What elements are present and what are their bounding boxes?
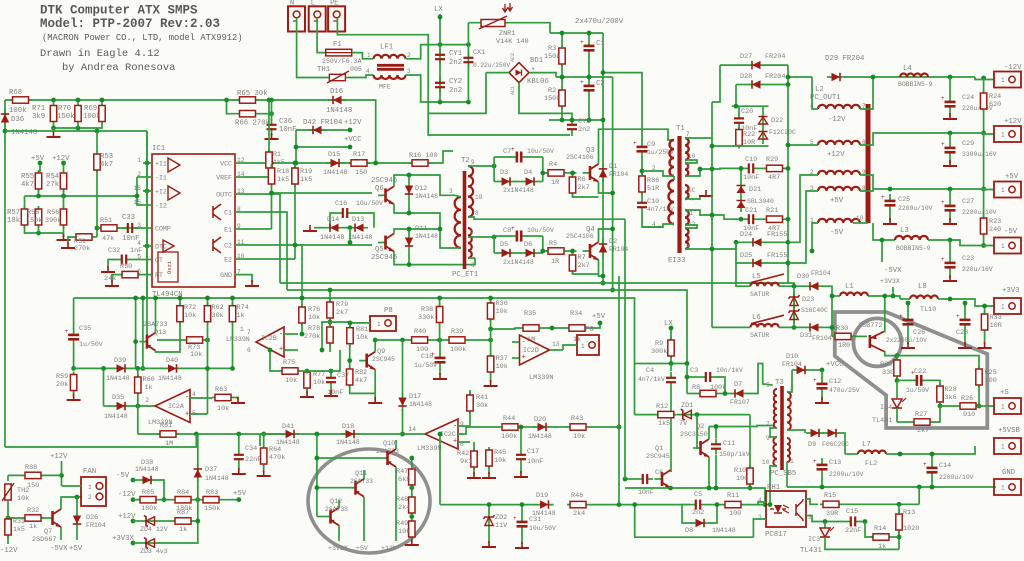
junction	[3, 129, 8, 134]
junction	[830, 325, 835, 330]
svg-text:+3V3X: +3V3X	[328, 545, 348, 552]
resistor R17	[348, 160, 370, 166]
wire	[766, 262, 788, 264]
svg-text:C4: C4	[646, 367, 654, 375]
svg-text:C34: C34	[245, 445, 257, 453]
wire	[832, 295, 840, 297]
resistor R9	[668, 337, 674, 359]
optocoupler PH1 PC817 box	[766, 491, 806, 527]
svg-text:10k: 10k	[494, 457, 506, 465]
junction	[438, 42, 443, 47]
svg-text:R78: R78	[308, 325, 320, 333]
svg-text:R27: R27	[915, 411, 927, 419]
wire	[744, 504, 770, 506]
junction	[294, 145, 299, 150]
svg-text:C16: C16	[335, 200, 347, 208]
svg-text:1N4148: 1N4148	[135, 466, 159, 473]
wire IC1 pin 7	[235, 274, 244, 276]
transistor Q10	[380, 449, 396, 467]
resistor R50	[119, 271, 141, 277]
ground	[67, 394, 81, 400]
svg-text:R71: R71	[32, 105, 46, 113]
svg-text:100k: 100k	[501, 433, 517, 441]
svg-text:1N4148: 1N4148	[415, 233, 438, 240]
resistor R3	[559, 45, 565, 67]
svg-text:R16 100: R16 100	[409, 152, 438, 160]
capacitor C23	[941, 256, 956, 274]
svg-text:R7: R7	[578, 254, 586, 262]
junction	[135, 194, 140, 199]
ground	[47, 131, 61, 137]
svg-text:L4: L4	[903, 65, 912, 73]
wire	[314, 227, 325, 229]
wire	[408, 199, 410, 213]
svg-text:10nF: 10nF	[743, 174, 759, 182]
L2 winding -5V	[818, 219, 860, 223]
wire	[330, 321, 350, 324]
resistor R83	[200, 497, 222, 503]
svg-text:R48: R48	[396, 496, 408, 504]
svg-text:+: +	[941, 256, 945, 263]
svg-text:PH1: PH1	[767, 484, 781, 492]
wire to Q5 base	[349, 228, 351, 243]
svg-text:11V: 11V	[495, 522, 508, 530]
resistor R11	[722, 501, 744, 507]
junction	[51, 126, 56, 131]
wire	[488, 505, 490, 512]
wire IC1 pin 15	[143, 204, 152, 206]
diode D16	[328, 96, 346, 104]
wire	[490, 373, 492, 382]
wire to bridge left	[486, 72, 509, 74]
svg-text:10nF: 10nF	[527, 458, 543, 466]
transistor Q7	[45, 509, 61, 527]
wire D7 to T3 pin5	[748, 364, 773, 394]
wire to R10	[749, 415, 751, 467]
svg-text:CY3: CY3	[578, 118, 590, 126]
svg-text:CX1: CX1	[473, 49, 485, 57]
svg-text:2200u/10V: 2200u/10V	[898, 205, 933, 212]
junction	[617, 502, 622, 507]
resistor R19	[292, 165, 298, 187]
svg-text:-5VX: -5VX	[884, 267, 902, 275]
svg-text:+I2: +I2	[155, 189, 167, 196]
junction	[871, 75, 876, 80]
junction	[792, 325, 797, 330]
wire IC2B in1	[284, 333, 298, 335]
wire	[561, 65, 563, 88]
wire	[949, 159, 951, 163]
svg-text:470u/25V: 470u/25V	[829, 387, 860, 394]
svg-text:D25: D25	[740, 252, 752, 260]
wire y131	[5, 130, 147, 132]
resistor R64	[261, 445, 267, 467]
wire Q6 emitter to T2 bottom	[394, 204, 455, 248]
svg-text:R77: R77	[313, 371, 325, 379]
svg-text:1k5: 1k5	[300, 176, 312, 184]
wire to L2 pin5	[788, 144, 818, 146]
wire	[439, 369, 441, 375]
wire	[181, 367, 233, 369]
wire	[821, 395, 823, 400]
wire x317 vertical	[316, 434, 318, 517]
svg-text:-12V: -12V	[0, 547, 18, 555]
wire	[978, 386, 980, 406]
svg-text:10: 10	[237, 253, 245, 260]
junction	[205, 296, 210, 301]
svg-text:22nF: 22nF	[245, 456, 261, 464]
wire x983 trunk a	[983, 78, 985, 92]
resistor R68	[10, 97, 32, 103]
diode D38	[138, 476, 156, 484]
wire Q8 collector down	[884, 352, 897, 356]
svg-text:2n2: 2n2	[449, 87, 462, 95]
wire T3 left link	[770, 428, 777, 437]
svg-text:2SC4106: 2SC4106	[566, 154, 594, 161]
svg-text:R9: R9	[655, 340, 663, 348]
junction	[348, 240, 353, 245]
wire snubber top	[603, 73, 642, 141]
wire L2 pin6	[860, 133, 900, 145]
svg-text:4R7: 4R7	[768, 174, 780, 182]
svg-text:C2: C2	[224, 243, 232, 250]
svg-text:12: 12	[237, 157, 245, 164]
junction	[830, 294, 835, 299]
svg-text:+5V: +5V	[69, 545, 83, 553]
resistor R74	[229, 303, 235, 325]
junction	[71, 366, 76, 371]
svg-text:BD1: BD1	[530, 57, 544, 65]
wire top rail	[5, 100, 376, 163]
junction	[786, 217, 791, 222]
resistor R61	[157, 431, 179, 437]
svg-text:+: +	[511, 225, 515, 232]
capacitor C28	[956, 313, 971, 331]
wire E1 ext	[244, 228, 272, 230]
wire	[330, 388, 332, 393]
svg-text:1k: 1k	[29, 523, 37, 531]
junction	[715, 502, 720, 507]
wire	[76, 529, 78, 540]
varistor ZNR1	[479, 3, 513, 29]
svg-text:C29: C29	[962, 140, 974, 148]
junction	[610, 191, 615, 196]
svg-text:10k: 10k	[496, 308, 508, 316]
diode D15	[326, 159, 344, 167]
svg-text:1k: 1k	[237, 312, 245, 320]
junction	[100, 98, 105, 103]
svg-text:8: 8	[475, 210, 479, 217]
wire IC2C out	[458, 427, 466, 434]
resistor R42	[471, 448, 477, 470]
transformer T3 left winding b	[773, 437, 777, 466]
svg-text:+12V: +12V	[52, 155, 70, 163]
svg-text:+: +	[899, 313, 903, 320]
svg-text:11: 11	[686, 210, 694, 217]
svg-text:R26: R26	[961, 395, 973, 403]
junction	[519, 425, 524, 430]
junction	[329, 369, 334, 374]
svg-text:2n2: 2n2	[692, 509, 704, 517]
capacitor C22	[910, 369, 928, 386]
svg-text:9k1: 9k1	[460, 458, 472, 466]
resistor R12a	[266, 149, 272, 171]
svg-text:R19: R19	[300, 168, 312, 176]
junction	[540, 171, 545, 176]
wire	[897, 379, 910, 381]
wire VCC row	[244, 151, 453, 163]
svg-text:R63: R63	[215, 386, 227, 394]
wire	[263, 465, 265, 472]
wire to P8	[350, 322, 370, 324]
wire bridge plus out	[529, 73, 556, 77]
svg-text:D36: D36	[11, 116, 24, 124]
capacitor C27	[941, 199, 956, 217]
wire IC1 pin 16	[143, 190, 152, 192]
wire PE earth line	[337, 18, 570, 135]
svg-text:2: 2	[88, 494, 92, 501]
junction	[153, 296, 158, 301]
svg-text:IC3: IC3	[808, 536, 820, 544]
junction	[488, 327, 493, 332]
svg-text:1: 1	[1001, 187, 1005, 194]
svg-text:+5V: +5V	[31, 155, 45, 163]
wire Q4 emitter	[599, 260, 604, 276]
junction	[948, 131, 953, 136]
svg-text:30k: 30k	[476, 402, 488, 410]
svg-text:R65 30k: R65 30k	[237, 90, 268, 98]
wire Q9 emitter	[374, 370, 376, 394]
wire mid rail	[25, 195, 138, 197]
svg-text:FAN: FAN	[83, 468, 96, 476]
diode D31	[805, 323, 823, 331]
svg-text:11: 11	[237, 239, 245, 246]
junction	[601, 274, 606, 279]
wire	[892, 536, 899, 538]
resistor R54	[60, 170, 66, 192]
junction	[786, 143, 791, 148]
wire	[363, 505, 365, 541]
wire Q7 collector	[61, 497, 82, 509]
svg-text:R49: R49	[396, 520, 408, 528]
wire	[984, 331, 986, 344]
svg-text:FR104: FR104	[782, 361, 802, 368]
wire	[787, 430, 805, 433]
svg-text:1N4148: 1N4148	[409, 401, 432, 408]
diode D40	[164, 364, 182, 372]
wire	[439, 298, 441, 306]
capacitor C4	[666, 372, 676, 388]
capacitor C20	[734, 113, 744, 129]
resistor R27	[911, 419, 933, 425]
wire Q1 emitter	[670, 487, 672, 489]
wire T2 pin3 link	[455, 195, 461, 197]
svg-text:1: 1	[1001, 485, 1005, 492]
svg-text:PG: PG	[585, 326, 594, 334]
svg-text:IC4: IC4	[880, 404, 892, 412]
svg-text:+5V: +5V	[233, 490, 247, 498]
wire	[561, 107, 563, 120]
junction	[36, 194, 41, 199]
wire T1 winding link	[673, 176, 675, 180]
svg-text:D15: D15	[328, 151, 340, 159]
wire IC2D out	[550, 349, 564, 351]
svg-text:R80: R80	[880, 361, 892, 369]
junction	[373, 338, 378, 343]
junction	[963, 301, 968, 306]
svg-text:2x470u/200V: 2x470u/200V	[575, 18, 624, 26]
svg-text:D16: D16	[330, 88, 343, 96]
svg-text:IC2A: IC2A	[168, 403, 184, 410]
connector -12V	[994, 72, 1021, 88]
wire	[408, 175, 410, 181]
junction	[948, 297, 953, 302]
wire	[810, 369, 822, 371]
junction	[810, 249, 815, 254]
junction	[981, 76, 986, 81]
junction	[141, 296, 146, 301]
wire	[539, 181, 543, 183]
junction	[739, 166, 744, 171]
wire -5V rail	[928, 240, 994, 246]
wire	[301, 370, 307, 372]
wire to Q4 base	[567, 250, 577, 252]
wire to Q5 base	[295, 244, 372, 246]
wire	[207, 298, 209, 305]
wire	[179, 298, 181, 305]
junction	[6, 516, 11, 521]
junction	[598, 321, 603, 326]
resistor R12	[655, 411, 677, 417]
svg-text:1N4148: 1N4148	[106, 375, 130, 382]
wire IC1 pin 11	[235, 244, 244, 246]
svg-text:+3V3X: +3V3X	[880, 278, 900, 285]
svg-text:+: +	[65, 328, 69, 335]
svg-text:FR155: FR155	[767, 252, 787, 260]
wire	[374, 393, 376, 400]
svg-text:14: 14	[409, 426, 417, 433]
transistor Q3	[583, 164, 599, 182]
svg-text:R32: R32	[27, 507, 39, 515]
wire	[473, 442, 475, 450]
junction	[400, 432, 405, 437]
wire R71-R69 bottom	[54, 124, 103, 128]
wire	[949, 113, 951, 116]
wire	[515, 252, 521, 254]
resistor R41	[467, 392, 473, 414]
svg-text:R22: R22	[743, 131, 755, 139]
resistor R46	[567, 501, 589, 507]
svg-text:10k: 10k	[313, 379, 325, 387]
diode D14	[325, 224, 343, 232]
wire x207 down	[207, 323, 209, 414]
svg-text:R18: R18	[277, 168, 289, 176]
diode D27	[747, 61, 765, 69]
op-amp IC2D LM339N	[520, 335, 550, 365]
wire GND rail	[787, 486, 996, 488]
svg-text:C2: C2	[596, 80, 605, 88]
resistor R5	[545, 248, 567, 254]
diode D10	[792, 366, 810, 374]
svg-text:39R: 39R	[826, 510, 838, 518]
wire	[131, 479, 134, 481]
wire	[133, 479, 138, 481]
wire	[706, 504, 722, 506]
svg-text:1: 1	[790, 458, 794, 465]
svg-text:24k: 24k	[104, 275, 116, 283]
junction	[400, 338, 405, 343]
wire to Q3 base	[567, 172, 577, 174]
wire Q8 emitter up	[883, 296, 886, 332]
ground	[943, 218, 957, 224]
resistor R32	[22, 515, 44, 521]
capacitor C18	[431, 351, 446, 369]
svg-text:2SC3150: 2SC3150	[680, 431, 708, 438]
diode D26	[73, 511, 81, 529]
ground	[901, 342, 915, 348]
wire	[137, 368, 139, 376]
transformer T1 primary 2	[669, 180, 675, 224]
ground	[231, 397, 245, 403]
svg-text:R41: R41	[476, 394, 488, 402]
resistor R88	[22, 472, 44, 478]
svg-text:R21: R21	[766, 207, 778, 215]
svg-text:R72: R72	[184, 304, 196, 312]
wire GND pin	[244, 275, 252, 282]
wire D25 to L2 pin3	[788, 191, 818, 263]
wire R74 down	[232, 323, 234, 369]
wire Q12 e	[338, 525, 340, 533]
wire long feedback	[5, 434, 196, 447]
diode D4	[521, 177, 539, 185]
transistor Q2	[693, 439, 709, 457]
wire T2 pin bottom link	[455, 247, 461, 249]
wire	[571, 135, 573, 136]
highlight ellipse Q11 Q12	[308, 449, 430, 553]
wire	[907, 331, 909, 344]
diode D2	[599, 239, 607, 257]
resistor R71	[50, 103, 56, 125]
svg-text:C5: C5	[694, 491, 702, 499]
svg-text:BOBBIN5-9: BOBBIN5-9	[898, 81, 933, 88]
svg-text:IC2D: IC2D	[523, 347, 539, 354]
svg-text:F12C20C: F12C20C	[769, 129, 796, 136]
svg-text:R45: R45	[494, 449, 506, 457]
wire RT	[141, 274, 143, 276]
resistor R37	[487, 353, 493, 375]
connector L	[309, 6, 326, 31]
svg-text:Q7: Q7	[44, 528, 52, 536]
wire	[232, 298, 234, 305]
capacitor C15	[845, 517, 861, 527]
wire D42 row	[296, 129, 350, 131]
svg-text:C6: C6	[655, 469, 663, 477]
wire VREF	[244, 169, 269, 177]
junction	[267, 161, 272, 166]
svg-text:10: 10	[475, 194, 483, 201]
wire R15 row	[842, 503, 919, 505]
wire	[949, 133, 951, 141]
wire R40 row	[375, 339, 409, 341]
junction	[610, 288, 615, 293]
wire	[343, 227, 350, 229]
svg-text:2SA733: 2SA733	[350, 478, 373, 485]
svg-text:-: -	[279, 331, 283, 339]
svg-text:+: +	[522, 354, 526, 362]
wire IC2C in2	[458, 441, 470, 443]
svg-text:R57: R57	[7, 209, 20, 217]
svg-text:TL431: TL431	[872, 417, 892, 425]
